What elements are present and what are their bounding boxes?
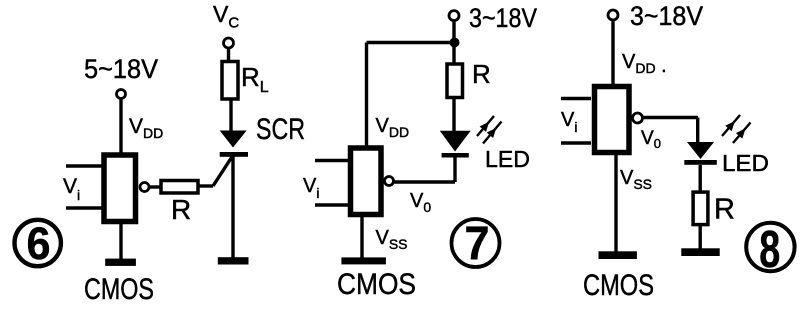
svg-text:CMOS: CMOS bbox=[84, 273, 154, 306]
svg-text:7: 7 bbox=[465, 217, 490, 270]
svg-text:5~18V: 5~18V bbox=[84, 54, 158, 84]
svg-text:3~18V: 3~18V bbox=[469, 3, 537, 33]
svg-text:R: R bbox=[171, 194, 191, 225]
svg-text:R: R bbox=[472, 59, 491, 89]
svg-text:SCR: SCR bbox=[256, 113, 305, 146]
svg-text:3~18V: 3~18V bbox=[630, 1, 703, 31]
svg-text:LED: LED bbox=[485, 146, 530, 172]
svg-text:LED: LED bbox=[722, 150, 769, 176]
svg-text:6: 6 bbox=[27, 218, 51, 269]
svg-text:R: R bbox=[714, 194, 735, 226]
svg-text:8: 8 bbox=[759, 221, 780, 279]
svg-text:CMOS: CMOS bbox=[583, 269, 654, 302]
svg-text:CMOS: CMOS bbox=[337, 268, 416, 301]
